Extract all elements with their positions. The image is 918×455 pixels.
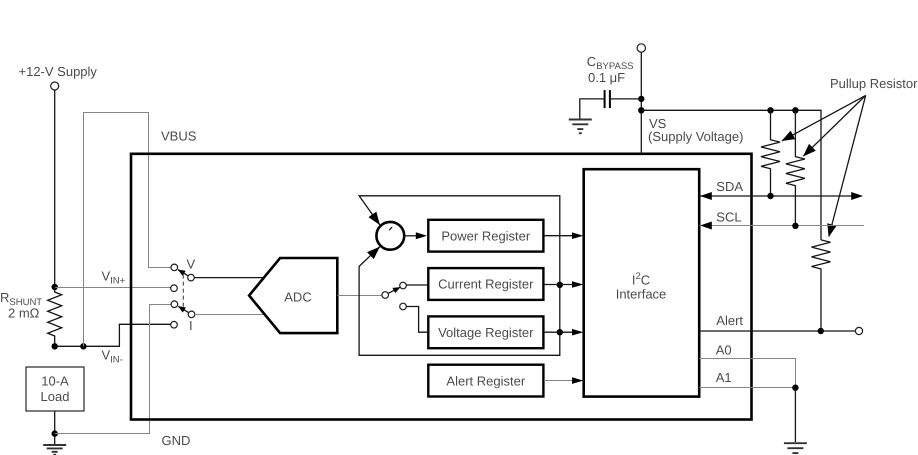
contact VIN-	[171, 321, 178, 328]
svg-text:I: I	[189, 318, 193, 333]
svg-text:Pullup Resistors: Pullup Resistors	[830, 76, 918, 91]
svg-text:Alert: Alert	[716, 313, 743, 328]
svg-text:Load: Load	[41, 389, 70, 404]
switch V arm	[178, 270, 188, 276]
svg-text:SDA: SDA	[716, 179, 743, 194]
wire GND return from chip	[55, 305, 171, 434]
resistor pullup 3	[812, 240, 831, 331]
I2C Interface box	[584, 169, 700, 396]
svg-text:SCL: SCL	[716, 210, 741, 225]
wire shunt bottom to VIN- tap	[55, 324, 171, 346]
node junction SDA pullup	[767, 193, 773, 199]
ground symbol address	[784, 443, 807, 455]
node junction pullup2 top	[792, 107, 798, 113]
svg-text:(Supply Voltage): (Supply Voltage)	[648, 129, 743, 144]
svg-text:V: V	[187, 257, 196, 272]
svg-text:Power Register: Power Register	[441, 228, 531, 243]
switch contact current	[400, 282, 407, 289]
node junction SCL pullup	[792, 223, 798, 229]
node junction current bus	[557, 282, 563, 288]
wire A0	[699, 359, 795, 388]
wire A1	[699, 387, 795, 389]
svg-text:Interface: Interface	[616, 287, 667, 302]
ground symbol bypass	[569, 120, 592, 134]
wire feedback loop top	[359, 196, 560, 355]
node junction VBUS tap	[80, 343, 86, 349]
arrow Current Register to I2C	[544, 281, 583, 288]
node junction ground	[52, 430, 58, 436]
node junction Alert pullup	[818, 328, 824, 334]
svg-text:Voltage Register: Voltage Register	[438, 325, 534, 340]
chip boundary	[131, 154, 752, 420]
svg-text:ADC: ADC	[284, 290, 311, 305]
svg-text:Current Register: Current Register	[438, 277, 534, 292]
wire SCL	[699, 222, 864, 230]
arrow multiplier to Power Register	[404, 232, 427, 239]
wire V common to ADC	[194, 277, 264, 279]
Alert output terminal	[855, 327, 862, 334]
arrow Power Register to I2C	[544, 232, 583, 239]
switch I contact	[171, 301, 178, 308]
arrow Alert Register to I2C	[544, 377, 583, 384]
wire ADC output	[337, 295, 382, 297]
wire supply to shunt	[54, 90, 56, 287]
wire load to ground	[54, 411, 56, 444]
wire SDA	[699, 192, 863, 200]
switch contact voltage	[400, 303, 407, 310]
contact VIN+	[171, 285, 178, 292]
resistor pullup 1	[761, 110, 780, 196]
svg-text:VIN+: VIN+	[102, 268, 126, 286]
wire VS vertical	[640, 52, 642, 154]
wire A1 to ground	[794, 388, 796, 442]
svg-text:0.1 μF: 0.1 μF	[588, 70, 625, 85]
arrow pointer to pullup3	[829, 95, 866, 236]
node junction A0 A1	[792, 385, 798, 391]
multiplier circle	[376, 222, 404, 250]
arrow pointer to pullup1	[782, 95, 866, 140]
resistor RSHUNT	[48, 287, 62, 346]
resistor pullup 2	[786, 110, 805, 226]
switch I common	[188, 311, 195, 318]
svg-text:2 mΩ: 2 mΩ	[8, 306, 40, 321]
node junction cap	[638, 96, 644, 102]
switch V contact	[171, 264, 178, 271]
svg-text:A0: A0	[716, 343, 732, 358]
switch ADC-out arm	[388, 287, 400, 293]
ground symbol left	[43, 445, 66, 455]
Power Register box	[428, 220, 543, 252]
wire I common to ADC	[195, 314, 264, 316]
node junction pullup1 top	[767, 107, 773, 113]
arrow pointer to pullup2	[804, 95, 866, 156]
svg-text:GND: GND	[162, 433, 191, 448]
node junction shunt bottom	[52, 343, 58, 349]
supply input terminal	[51, 82, 59, 90]
svg-text:+12-V Supply: +12-V Supply	[19, 64, 98, 79]
Voltage Register box	[428, 316, 543, 348]
arrow into multiplier top	[372, 214, 380, 225]
node junction voltage bus	[557, 329, 563, 335]
svg-text:10-A: 10-A	[41, 374, 69, 389]
Alert Register box	[428, 365, 543, 397]
switch V common	[188, 274, 195, 281]
node junction VS bus	[638, 107, 644, 113]
supply terminal top	[637, 44, 645, 52]
wire VBUS from shunt bottom into chip	[84, 113, 172, 347]
svg-text:I2C: I2C	[632, 271, 650, 288]
svg-text:Alert Register: Alert Register	[446, 373, 525, 388]
switch I arm	[178, 306, 188, 312]
node junction shunt top	[52, 284, 58, 290]
wire VS bus to pullups	[641, 110, 821, 240]
capacitor CBYPASS	[580, 90, 642, 119]
wire Alert	[699, 330, 855, 332]
ADC block	[249, 258, 337, 333]
Current Register box	[428, 268, 543, 300]
wire VIN+	[55, 287, 171, 289]
svg-text:VBUS: VBUS	[161, 128, 197, 143]
arrow into multiplier bottom	[371, 247, 379, 255]
switch ADC-out common	[382, 292, 389, 299]
arrow Voltage Register to I2C	[544, 329, 583, 336]
svg-text:A1: A1	[716, 370, 732, 385]
gang dashed link	[182, 275, 184, 310]
svg-text:VIN-: VIN-	[102, 348, 123, 366]
wire to Current Register	[406, 284, 428, 286]
wire to Voltage Register	[406, 307, 427, 333]
load box 10-A Load	[26, 367, 84, 411]
